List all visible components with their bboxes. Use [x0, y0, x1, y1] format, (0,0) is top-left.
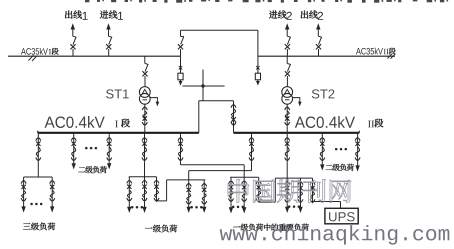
- 0.4kV bus section II: [234, 131, 360, 133]
- bus II second-class load feeder 1: [320, 133, 325, 171]
- incoming line 2 (jin-xian-2) label: [269, 10, 292, 19]
- bar D load branch 1: [285, 178, 290, 213]
- third-class load branch 1: [21, 177, 26, 213]
- metering tap node with junction: [183, 70, 225, 101]
- bus II second-class load feeder 2: [355, 133, 360, 172]
- transformer ST2: [282, 87, 302, 107]
- UPS box: [325, 208, 358, 224]
- bar D branch to UPS: [310, 178, 341, 208]
- bus I tie feeder to bar C: [178, 133, 244, 178]
- ellipsis dots bar C loads: [232, 206, 244, 209]
- 35kV bus section I: [8, 55, 181, 57]
- label AC35kV I section: [21, 48, 59, 55]
- bus II tie feeder to bar B: [189, 133, 254, 180]
- label third-class load (san-ji-fu-he): [23, 223, 55, 231]
- label AC0.4kV II section: [295, 116, 384, 128]
- bar C load branch 1: [229, 177, 234, 213]
- 35kV bus-tie with disconnector and breaker: [178, 30, 258, 56]
- outgoing line 2 feeder with disconnector and breaker: [316, 23, 322, 56]
- incoming line 1 (jin-xian-1) label: [100, 10, 123, 19]
- incoming line 1 feeder with disconnector and breaker: [106, 23, 112, 56]
- transformer ST1 LV-side breaker: [142, 104, 147, 133]
- label second-class load right (er-ji-fu-he): [326, 164, 354, 171]
- ellipsis dots third-class loads: [30, 203, 42, 206]
- transformer ST1 disconnector: [142, 56, 148, 86]
- ellipsis dots second-class loads left: [85, 147, 97, 150]
- first-class load branch 2: [142, 177, 147, 213]
- bar C interconnect breaker to bar D: [256, 177, 275, 202]
- label second-class load left (er-ji-fu-he): [78, 166, 106, 173]
- voltage-transformer fuse drop on bus II: [255, 56, 260, 85]
- bus I feeder breaker to first-class loads: [142, 133, 147, 177]
- bar B load branch 2: [202, 180, 207, 213]
- outgoing line 1 feeder with disconnector and breaker: [70, 23, 76, 56]
- first-class load distribution bar A: [129, 176, 157, 178]
- important-load distribution bar C: [230, 176, 259, 178]
- bar B load branch 1: [186, 180, 191, 213]
- watermark www.chinaqking.com: [220, 225, 450, 245]
- important-load distribution bar B: [167, 179, 206, 181]
- third-class load distribution bar: [24, 176, 53, 178]
- bus I second-class load feeder 1: [71, 133, 76, 170]
- bar A interconnect breaker to bar B: [154, 177, 167, 202]
- outgoing line 1 (chu-xian-1) label: [65, 10, 88, 19]
- ellipsis dots first-class loads: [131, 206, 143, 209]
- bar D load branch 2: [298, 178, 303, 213]
- label important loads of first-class (yi-ji-fu-he-zhong-de-zhong-yao-fu-he): [233, 224, 309, 231]
- voltage-transformer fuse drop on bus I: [178, 56, 183, 85]
- ellipsis dots second-class loads right: [335, 148, 347, 151]
- important-load distribution bar D: [275, 177, 312, 179]
- bar C load branch 2: [242, 177, 247, 213]
- transformer ST1: [139, 87, 159, 107]
- transformer ST2 disconnector: [285, 56, 291, 86]
- label AC0.4kV I section: [45, 116, 130, 128]
- bus I feeder breaker to third-class loads: [36, 133, 41, 177]
- 0.4kV bus-tie bridge with withdrawable breaker: [199, 101, 236, 133]
- first-class load branch 1: [127, 177, 132, 213]
- cropped caption text remnants along top edge: [85, 0, 448, 3]
- 35kV bus section II: [258, 55, 395, 57]
- third-class load branch 2: [50, 177, 55, 213]
- incoming line 2 feeder with disconnector and breaker: [285, 23, 291, 56]
- break mark on 35kV bus I: [29, 55, 38, 61]
- label first-class load (yi-ji-fu-he): [145, 225, 177, 233]
- ellipsis dots bar D loads: [288, 205, 300, 208]
- 0.4kV bus section I: [38, 131, 199, 133]
- label ST2: [312, 89, 335, 98]
- bus II feeder breaker to bar D: [285, 133, 290, 178]
- label AC35kV II section: [356, 48, 396, 55]
- outgoing line 2 (chu-xian-2) label: [301, 10, 323, 19]
- ellipsis dots bar B loads: [190, 206, 202, 209]
- break mark on 35kV bus II right end: [388, 54, 396, 59]
- transformer ST2 LV-side breaker: [285, 104, 290, 133]
- label ST1: [106, 89, 129, 98]
- bus I second-class load feeder 2: [107, 133, 112, 170]
- watermark zhong-guo-qi-kan-wang (chinaqking): [228, 179, 351, 202]
